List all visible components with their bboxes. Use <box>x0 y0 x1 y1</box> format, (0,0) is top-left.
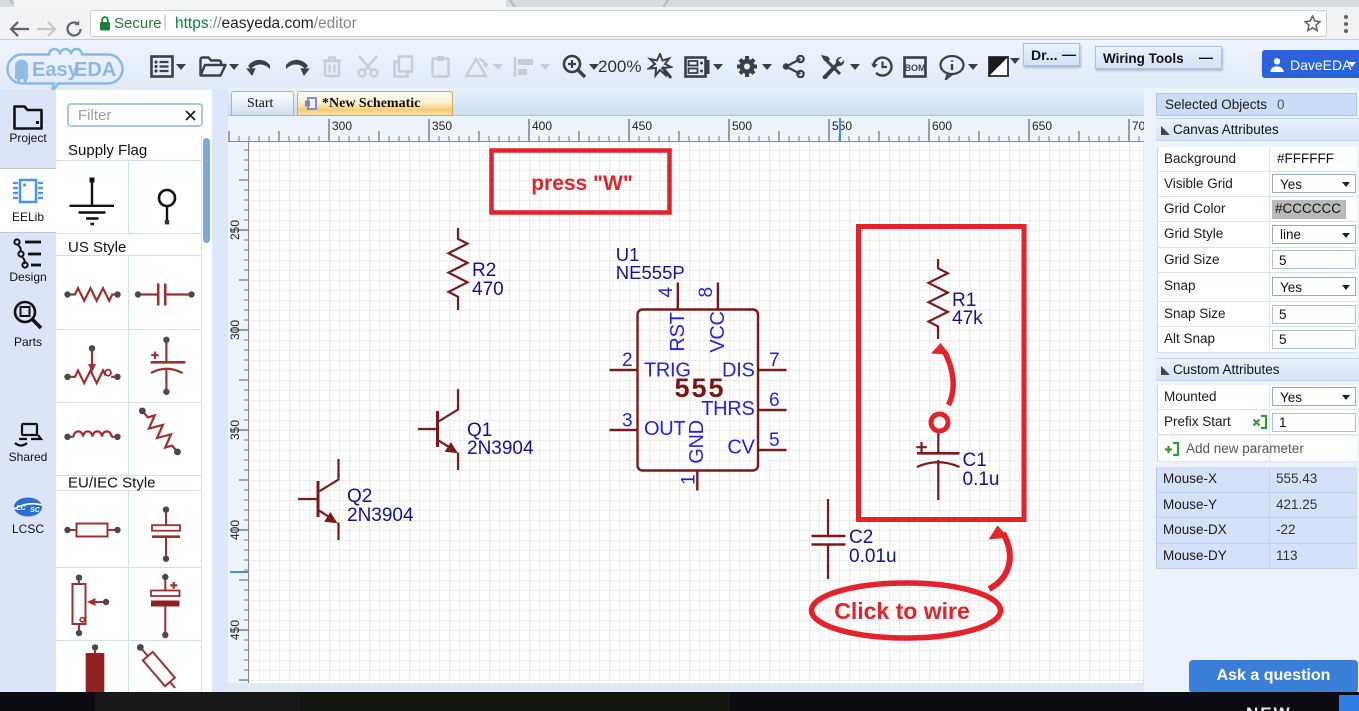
svg-text:3: 3 <box>622 411 633 432</box>
svg-text:SC: SC <box>30 507 41 514</box>
svg-text:Shared: Shared <box>9 450 48 464</box>
svg-text:LC: LC <box>16 505 26 512</box>
svg-text:press "W": press "W" <box>531 172 633 195</box>
svg-text:4: 4 <box>656 286 677 297</box>
svg-text:700: 700 <box>1132 119 1144 133</box>
svg-text:2: 2 <box>622 350 633 371</box>
svg-text:DIS: DIS <box>722 360 754 382</box>
svg-text:400: 400 <box>228 520 242 540</box>
svg-text:0.01u: 0.01u <box>849 546 897 567</box>
svg-text:600: 600 <box>932 119 952 133</box>
svg-text:LCSC: LCSC <box>12 522 44 536</box>
svg-text:EDA: EDA <box>74 59 116 81</box>
svg-text:Easy: Easy <box>32 59 80 81</box>
svg-text:2N3904: 2N3904 <box>467 438 534 459</box>
svg-text:NE555P: NE555P <box>616 262 685 283</box>
svg-text:8: 8 <box>696 287 717 298</box>
svg-text:BOM: BOM <box>905 63 926 73</box>
svg-text:EU/IEC Style: EU/IEC Style <box>68 475 156 492</box>
svg-text:US Style: US Style <box>68 239 126 256</box>
svg-text:400: 400 <box>532 119 552 133</box>
svg-text:Parts: Parts <box>14 335 42 349</box>
svg-text:300: 300 <box>332 119 352 133</box>
svg-text:CV: CV <box>727 437 755 459</box>
svg-text:470: 470 <box>472 279 504 300</box>
svg-text:GND: GND <box>686 420 708 464</box>
svg-text:47k: 47k <box>952 308 983 329</box>
svg-text:350: 350 <box>228 420 242 440</box>
svg-text:VCC: VCC <box>707 311 729 352</box>
svg-text:Supply Flag: Supply Flag <box>68 142 147 159</box>
svg-text:450: 450 <box>632 119 652 133</box>
svg-text:Design: Design <box>9 270 46 284</box>
svg-text:6: 6 <box>769 390 780 411</box>
svg-text:OUT: OUT <box>644 418 685 440</box>
svg-text:0.1u: 0.1u <box>963 469 1000 490</box>
svg-text:5: 5 <box>769 430 780 451</box>
svg-text:7: 7 <box>769 350 780 371</box>
svg-text:RST: RST <box>667 312 689 351</box>
svg-text:Q2: Q2 <box>347 486 372 507</box>
svg-text:250: 250 <box>228 220 242 240</box>
svg-text:1: 1 <box>679 474 700 485</box>
svg-text:555: 555 <box>674 373 725 403</box>
svg-text:C2: C2 <box>849 527 873 548</box>
svg-text:C1: C1 <box>963 450 987 471</box>
svg-text:350: 350 <box>432 119 452 133</box>
svg-text:300: 300 <box>228 320 242 340</box>
svg-text:450: 450 <box>228 620 242 640</box>
svg-text:550: 550 <box>832 119 852 133</box>
svg-text:650: 650 <box>1032 119 1052 133</box>
svg-text:Click to wire: Click to wire <box>834 598 969 624</box>
svg-text:500: 500 <box>732 119 752 133</box>
svg-text:2N3904: 2N3904 <box>347 505 414 526</box>
svg-text:Project: Project <box>9 131 47 145</box>
svg-text:EELib: EELib <box>12 210 44 224</box>
svg-text:R2: R2 <box>472 260 496 281</box>
